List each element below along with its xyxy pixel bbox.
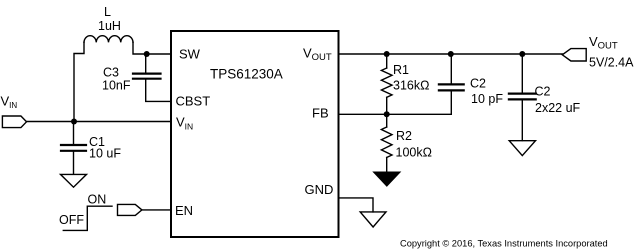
ground under GND pin [360,212,386,227]
wire VIN node up to inductor [74,42,84,121]
svg-text:316kΩ: 316kΩ [393,79,429,93]
svg-text:L: L [104,5,111,19]
svg-text:100kΩ: 100kΩ [396,146,432,160]
junction node dot VOUT-C2b [519,51,525,57]
ON/OFF step waveform [63,206,112,230]
svg-text:10 pF: 10 pF [471,92,503,106]
wire VOUT pin to output tag [339,53,563,55]
svg-text:10 uF: 10 uF [89,146,121,160]
node VOUT output tag [562,49,586,61]
svg-text:FB: FB [312,105,329,120]
svg-text:10nF: 10nF [102,79,131,93]
svg-text:C2: C2 [535,85,551,99]
resistor R1 316k [381,68,392,97]
node VIN input tag [2,116,26,128]
capacitor C1 10uF [61,145,86,151]
junction node dot VOUT-R1 [384,51,390,57]
wire inductor to SW pin [133,42,171,54]
ground under C1 [61,174,87,187]
wire EN tag to EN pin [142,209,171,211]
wire C1 to ground [73,151,75,174]
wire C3 to CBST pin [146,79,171,102]
inductor L1 1uH [84,36,133,43]
svg-text:R2: R2 [396,129,412,143]
junction node dot VOUT-C2a [448,51,454,57]
svg-text:SW: SW [179,47,201,62]
svg-text:C3: C3 [103,66,119,80]
wire VOUT node down to C2b [521,54,523,93]
wire VOUT node down to C2a [450,54,452,84]
svg-text:GND: GND [305,182,334,197]
wire SW node down to C3 [145,54,147,73]
wire C2b to ground [521,99,523,140]
svg-text:TPS61230A: TPS61230A [210,67,283,82]
node EN input tag [118,204,142,215]
svg-text:C2: C2 [470,77,486,91]
svg-text:2x22 uF: 2x22 uF [535,101,581,115]
wire FB pin to C2a [339,113,452,115]
svg-text:5V/2.4A: 5V/2.4A [589,56,634,70]
capacitor C2a 10pF [439,84,464,90]
wire VIN node down to C1 [73,122,75,145]
capacitor C2b 2x22uF [509,94,536,100]
junction node dot SW [144,51,150,57]
svg-text:CBST: CBST [176,93,211,108]
wire VIN input to IC [27,121,172,123]
svg-text:ON: ON [88,193,107,207]
wire R2 to power ground [386,158,388,173]
wire R1 to FB node [386,97,388,114]
wire GND pin to ground [339,198,374,212]
resistor R2 100k [381,127,392,158]
junction node dot VIN [71,119,77,125]
op-amp U1 IC block TPS61230A [171,31,339,237]
capacitor C3 10nF [133,74,161,79]
svg-text:1uH: 1uH [98,19,121,33]
svg-text:EN: EN [175,203,193,218]
power ground filled triangle under R2 [374,172,400,186]
junction node dot FB [384,111,390,117]
wire C2a to FB wire [450,90,452,114]
ground under C2b [509,141,535,156]
wire VOUT node down to R1 [386,54,388,68]
svg-text:Copyright © 2016, Texas Instru: Copyright © 2016, Texas Instruments Inco… [400,238,608,248]
svg-text:OFF: OFF [59,213,84,227]
svg-text:R1: R1 [393,63,409,77]
wire FB node down to R2 [386,114,388,127]
